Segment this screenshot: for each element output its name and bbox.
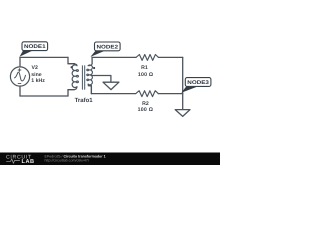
node C flag NODE3 [181, 78, 211, 93]
svg-text:100 Ω: 100 Ω [138, 107, 154, 113]
wire V2 top lead [19, 57, 21, 66]
svg-text:NODE2: NODE2 [97, 44, 119, 50]
wire right vertical [182, 57, 184, 109]
wire transformer left vertical top [68, 57, 75, 63]
svg-text:NODE3: NODE3 [187, 80, 209, 86]
transformer phase dot secondary [93, 67, 95, 69]
label V2 value [31, 65, 45, 84]
wire R2 left [91, 93, 135, 95]
node B flag NODE2 [90, 42, 120, 57]
ground (right, NODE3) [175, 110, 190, 117]
voltage source V2 [10, 67, 29, 86]
wire secondary bottom lead [88, 86, 91, 94]
resistor R1 [136, 55, 159, 61]
svg-text:100 Ω: 100 Ω [138, 72, 154, 78]
transformer center tap lead [91, 76, 111, 83]
transformer secondary winding [87, 64, 93, 94]
svg-text:R1: R1 [141, 65, 148, 71]
transformer core [82, 66, 84, 89]
transformer phase dot primary [71, 66, 73, 68]
svg-text:V2: V2 [32, 65, 38, 71]
wire top rail primary [20, 56, 68, 58]
svg-text:1 kHz: 1 kHz [31, 78, 45, 84]
node A flag NODE1 [20, 42, 48, 57]
watermark bar [0, 153, 220, 166]
resistor R2 [136, 91, 159, 97]
svg-text:NODE1: NODE1 [24, 44, 46, 50]
wire transformer left vertical bottom [68, 90, 75, 96]
svg-text:R2: R2 [142, 101, 149, 107]
svg-text:http://circuitlab.com/c6kv47r: http://circuitlab.com/c6kv47r [45, 159, 90, 163]
wire R1 left [92, 56, 136, 58]
wire bottom rail primary [20, 95, 68, 97]
CircuitLab logo [6, 155, 35, 166]
transformer secondary top lead [91, 57, 93, 63]
wire R1 right [159, 56, 183, 58]
wire R2 right [158, 93, 182, 95]
transformer Trafo1 primary winding [68, 64, 78, 90]
ground (left, center tap) [103, 82, 119, 89]
wire V2 bottom lead [19, 86, 21, 96]
svg-text:LAB: LAB [22, 159, 35, 165]
svg-text:Trafo1: Trafo1 [75, 97, 94, 104]
